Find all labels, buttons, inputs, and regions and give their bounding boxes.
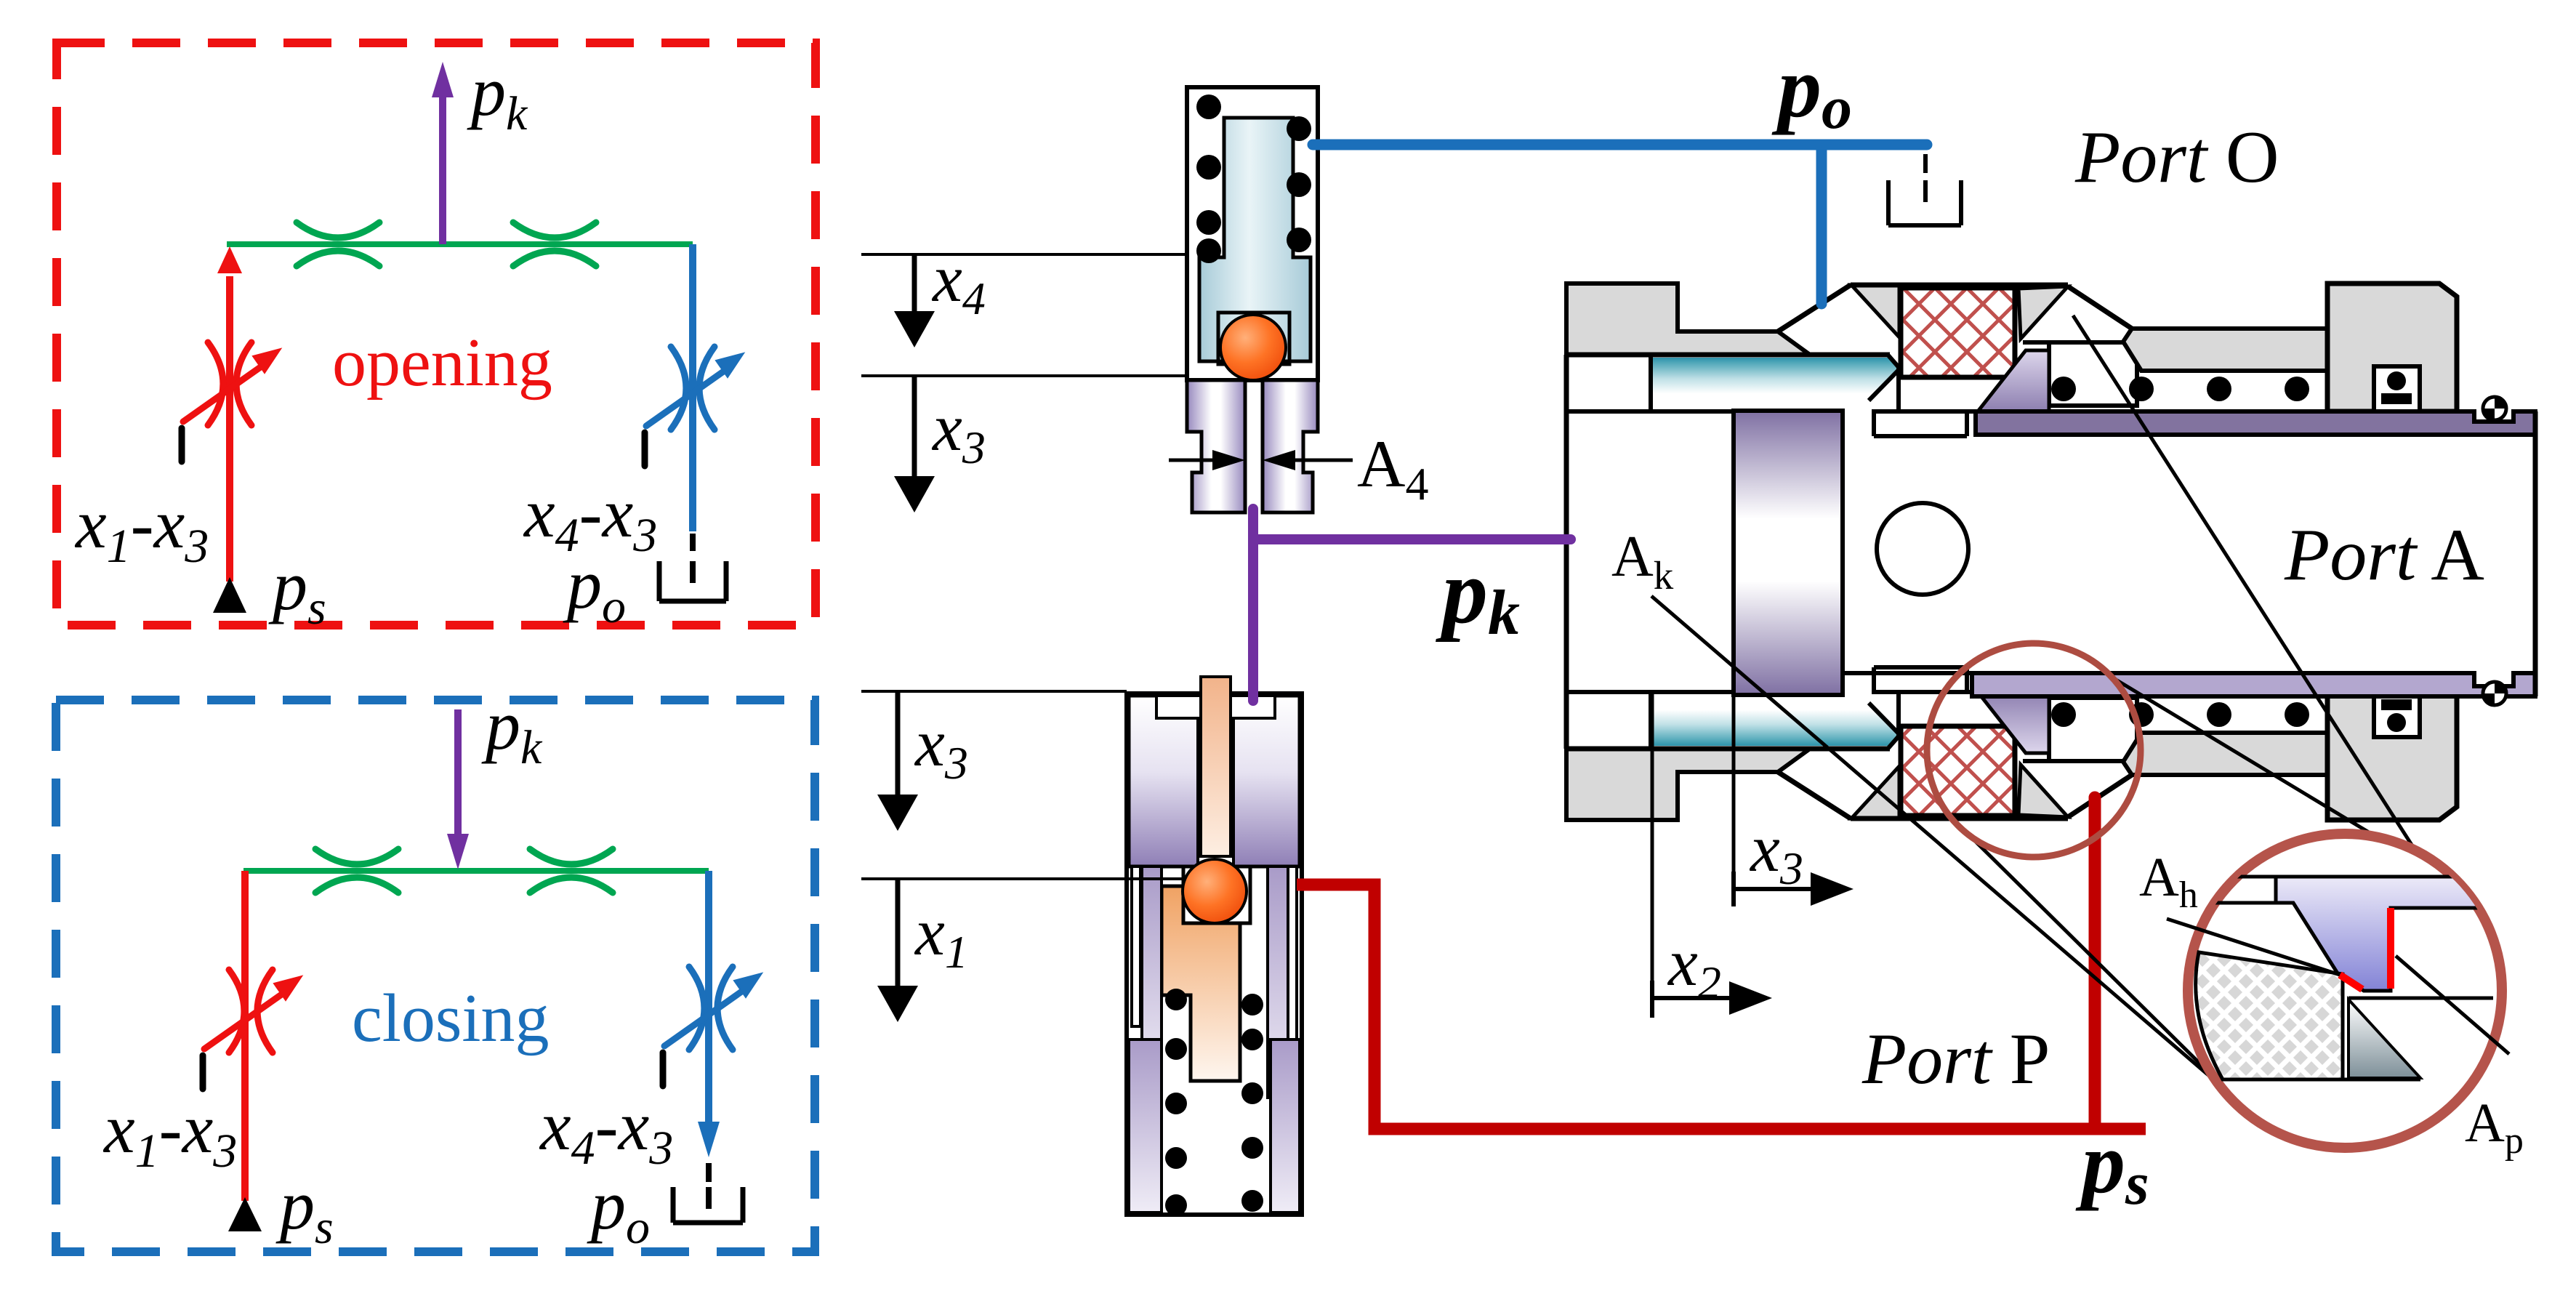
svg-text:Port O: Port O (2074, 116, 2279, 198)
svg-text:opening: opening (332, 325, 552, 401)
svg-text:Port P: Port P (1861, 1018, 2050, 1099)
svg-text:closing: closing (352, 981, 550, 1056)
svg-text:Port A: Port A (2284, 514, 2484, 596)
